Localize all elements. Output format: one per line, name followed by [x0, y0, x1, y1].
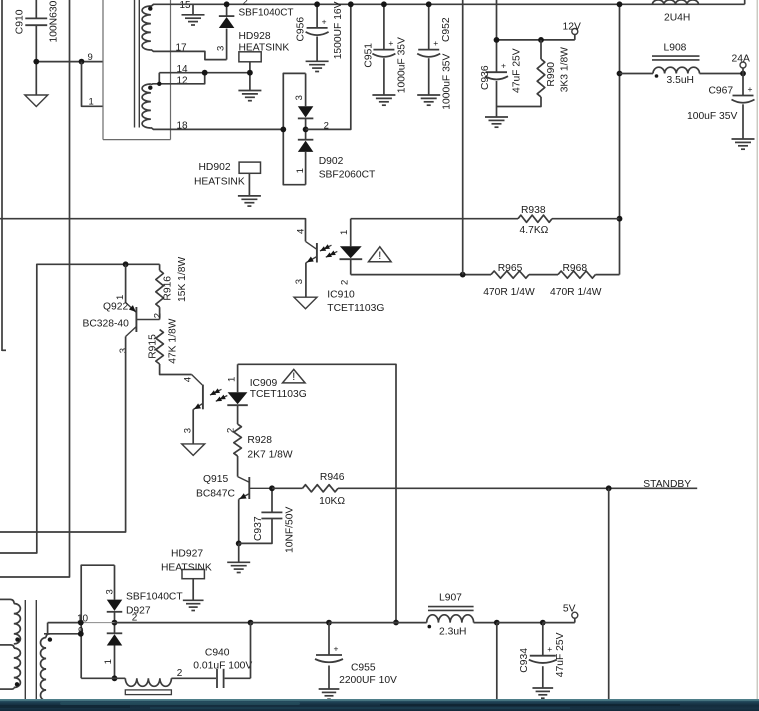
svg-text:24A: 24A: [732, 54, 750, 65]
svg-text:12V: 12V: [563, 21, 581, 32]
wire: [82, 62, 104, 107]
svg-text:+: +: [322, 16, 327, 26]
resistor R965 470R: [491, 271, 529, 278]
ground: [294, 297, 317, 309]
svg-text:100N630: 100N630: [49, 0, 60, 42]
inductor ferrite coil: [125, 678, 171, 686]
svg-text:9: 9: [78, 626, 84, 637]
svg-text:1: 1: [227, 377, 238, 382]
svg-text:15K 1/8W: 15K 1/8W: [177, 257, 188, 302]
svg-text:+: +: [547, 644, 552, 654]
wire: [225, 677, 251, 679]
transistor Q922 BC328-40: [125, 264, 127, 302]
warning triangle: [369, 247, 392, 262]
node STANDBY wire: [338, 487, 697, 489]
svg-text:+: +: [388, 38, 393, 48]
diode D927 SBF1040CT: [81, 565, 114, 678]
svg-text:2: 2: [340, 280, 351, 285]
node 12V wire: [497, 39, 575, 41]
svg-text:D902: D902: [319, 156, 344, 167]
transformer T901 core: [134, 0, 136, 128]
svg-text:15: 15: [180, 0, 192, 11]
svg-text:3K3 1/8W: 3K3 1/8W: [560, 47, 571, 92]
node pin9 wire: [44, 633, 81, 635]
wire: [756, 0, 758, 699]
wire: [0, 0, 70, 577]
capacitor C910: [35, 0, 37, 18]
ground: [182, 444, 205, 456]
svg-text:3: 3: [294, 95, 305, 100]
svg-text:4: 4: [296, 229, 307, 234]
svg-text:5V: 5V: [563, 604, 576, 615]
svg-text:BC328-40: BC328-40: [83, 319, 130, 330]
svg-text:1500UF 16V: 1500UF 16V: [333, 1, 344, 59]
wire: [619, 4, 621, 274]
wire: [249, 62, 251, 91]
ground: [306, 60, 329, 62]
wire: [608, 488, 610, 700]
wire: [238, 364, 396, 622]
svg-text:+: +: [748, 84, 753, 94]
transformer T902 core: [24, 600, 26, 701]
svg-text:R938: R938: [521, 205, 546, 216]
svg-text:10KΩ: 10KΩ: [319, 496, 345, 507]
ground: [238, 195, 261, 197]
svg-text:4.7KΩ: 4.7KΩ: [520, 225, 549, 236]
wire: [171, 3, 745, 5]
svg-text:SBF2060CT: SBF2060CT: [319, 169, 376, 180]
svg-text:!: !: [378, 250, 381, 262]
svg-text:C967: C967: [709, 86, 734, 97]
wire: [1, 0, 3, 351]
svg-text:HD928: HD928: [239, 31, 271, 42]
capacitor C967: [742, 74, 744, 96]
wire: [596, 274, 620, 276]
terminal 12V: [574, 34, 576, 40]
wire: [238, 499, 240, 543]
svg-text:HEATSINK: HEATSINK: [194, 176, 245, 187]
svg-text:3: 3: [215, 46, 226, 51]
wire: [529, 274, 558, 276]
transformer T901 winding B: [142, 84, 151, 128]
svg-text:2U4H: 2U4H: [664, 13, 690, 24]
resistor R946 10K: [272, 487, 303, 489]
transformer T901 winding A: [142, 6, 151, 50]
svg-text:2200UF 10V: 2200UF 10V: [339, 675, 397, 686]
svg-text:1: 1: [103, 659, 114, 664]
transformer T902 primary winding upper: [0, 598, 11, 600]
wire: [0, 264, 160, 553]
ground: [417, 94, 440, 96]
svg-text:SBF1040CT: SBF1040CT: [126, 591, 183, 602]
node 9 wire: [36, 61, 103, 63]
ground: [183, 599, 204, 601]
svg-text:1: 1: [89, 97, 94, 108]
transformer T902 secondary winding: [46, 634, 50, 638]
svg-text:R916: R916: [163, 276, 174, 301]
optocoupler IC909 TCET1103G: [192, 375, 203, 385]
wire: [81, 677, 125, 679]
svg-text:3: 3: [104, 589, 115, 594]
capacitor C956: [316, 4, 318, 27]
wire: [0, 337, 126, 533]
wire: [160, 364, 192, 375]
svg-text:+: +: [433, 38, 438, 48]
svg-text:2: 2: [132, 613, 138, 624]
svg-text:10NF/50V: 10NF/50V: [285, 507, 296, 553]
svg-text:2.3uH: 2.3uH: [439, 627, 466, 638]
svg-text:D927: D927: [126, 605, 151, 616]
resistor R928 2K7 1/8W: [234, 424, 242, 456]
svg-text:!: !: [292, 371, 295, 383]
resistor R938 4.7K: [351, 218, 518, 220]
capacitor C940 0.01uF 100V: [216, 669, 218, 688]
photo edge dark bar: [0, 699, 759, 711]
resistor R990 3K3 1/8W: [540, 40, 542, 59]
ground: [192, 4, 194, 15]
svg-text:C951: C951: [363, 43, 374, 68]
wire: [474, 622, 497, 624]
capacitor C937 10NF/50V: [271, 488, 273, 512]
svg-text:R965: R965: [498, 263, 523, 274]
optocoupler IC910 TCET1103G: [306, 241, 317, 249]
ground: [25, 95, 48, 107]
svg-text:C934: C934: [519, 648, 530, 673]
ground: [372, 94, 395, 96]
wire: [159, 72, 250, 74]
svg-text:470R 1/4W: 470R 1/4W: [483, 287, 535, 298]
svg-text:R928: R928: [247, 435, 272, 446]
svg-text:1: 1: [339, 230, 350, 235]
transformer T901 winding B pin 18 lead: [151, 128, 171, 130]
svg-text:2K7 1/8W: 2K7 1/8W: [247, 450, 292, 461]
warning triangle: [283, 369, 306, 383]
wire: [351, 274, 491, 276]
svg-text:C956: C956: [295, 17, 306, 42]
svg-text:BC847C: BC847C: [196, 489, 235, 500]
svg-text:10: 10: [77, 613, 89, 624]
svg-text:1000uF 35V: 1000uF 35V: [442, 53, 453, 109]
svg-text:IC910: IC910: [327, 290, 355, 301]
svg-text:C952: C952: [441, 17, 452, 42]
node pin10 wire: [48, 622, 82, 624]
ground: [319, 688, 340, 690]
svg-text:C937: C937: [253, 516, 264, 541]
resistor R916 15K 1/8W: [159, 264, 161, 270]
svg-text:R968: R968: [563, 263, 588, 274]
svg-text:4: 4: [182, 377, 193, 382]
wire: [171, 677, 216, 679]
svg-text:2: 2: [152, 313, 163, 318]
wire: [620, 73, 654, 75]
ground: [227, 561, 250, 563]
svg-text:R915: R915: [147, 334, 158, 359]
svg-text:3: 3: [118, 348, 129, 353]
svg-text:9: 9: [88, 52, 93, 63]
transistor Q915 BC847C: [248, 477, 250, 499]
svg-text:Q915: Q915: [203, 474, 228, 485]
ground: [238, 90, 261, 92]
svg-text:STANDBY: STANDBY: [643, 479, 691, 490]
svg-text:1000uF 35V: 1000uF 35V: [397, 37, 408, 93]
svg-text:2: 2: [243, 0, 248, 8]
transformer T901 winding A pin 17 lead: [151, 50, 171, 52]
capacitor C952: [428, 4, 430, 49]
svg-text:Q922: Q922: [103, 302, 128, 313]
svg-text:TCET1103G: TCET1103G: [327, 303, 384, 314]
svg-text:1: 1: [115, 295, 126, 300]
svg-text:3: 3: [294, 279, 305, 284]
svg-text:SBF1040CT: SBF1040CT: [239, 8, 294, 19]
svg-text:HD927: HD927: [171, 549, 203, 560]
diode D928 SBF1040CT: [226, 29, 228, 60]
svg-text:+: +: [501, 61, 506, 71]
ground: [732, 138, 755, 140]
svg-text:HD902: HD902: [199, 162, 231, 173]
svg-text:C936: C936: [480, 65, 491, 90]
wire: [171, 51, 227, 59]
svg-text:47uF 25V: 47uF 25V: [555, 632, 566, 677]
svg-text:1: 1: [295, 168, 306, 173]
svg-text:L908: L908: [664, 43, 687, 54]
wire: [744, 0, 746, 4]
capacitor C934 47uF 25V: [542, 623, 544, 656]
transformer T902 primary winding lower: [0, 644, 11, 646]
wire: [496, 623, 498, 700]
svg-text:L907: L907: [439, 593, 462, 604]
ground: [485, 116, 508, 118]
capacitor C951: [383, 4, 385, 49]
svg-text:TCET1103G: TCET1103G: [250, 389, 307, 400]
capacitor C955 2200UF 10V: [328, 623, 330, 655]
svg-text:R946: R946: [320, 472, 345, 483]
wire: [462, 0, 464, 275]
svg-text:C940: C940: [205, 648, 230, 659]
wire: [306, 4, 351, 129]
svg-text:3.5uH: 3.5uH: [667, 75, 694, 86]
terminal 24A: [742, 68, 744, 74]
wire: [47, 623, 49, 634]
wire: [81, 622, 114, 624]
ground: [532, 687, 553, 689]
svg-text:3: 3: [182, 428, 193, 433]
svg-text:470R 1/4W: 470R 1/4W: [550, 287, 602, 298]
svg-text:+: +: [334, 644, 339, 654]
svg-text:R990: R990: [546, 62, 557, 87]
wire: [115, 622, 251, 624]
transformer T901 box: [102, 0, 104, 140]
svg-text:C910: C910: [15, 9, 26, 34]
svg-text:47K 1/8W: 47K 1/8W: [167, 318, 178, 363]
svg-text:IC909: IC909: [250, 378, 278, 389]
resistor R968 470R: [558, 271, 596, 278]
terminal 5V: [574, 618, 576, 622]
wire: [0, 219, 306, 242]
wire: [496, 0, 498, 72]
inductor 2U4H: [652, 0, 698, 4]
wire: [171, 128, 284, 130]
svg-text:47uF 25V: 47uF 25V: [512, 48, 523, 93]
svg-text:C955: C955: [351, 663, 376, 674]
svg-text:100uF 35V: 100uF 35V: [687, 111, 738, 122]
diode D902 SBF2060CT: [283, 73, 305, 184]
svg-text:0.01uF 100V: 0.01uF 100V: [193, 660, 252, 671]
resistor R915 47K 1/8W: [156, 330, 164, 364]
